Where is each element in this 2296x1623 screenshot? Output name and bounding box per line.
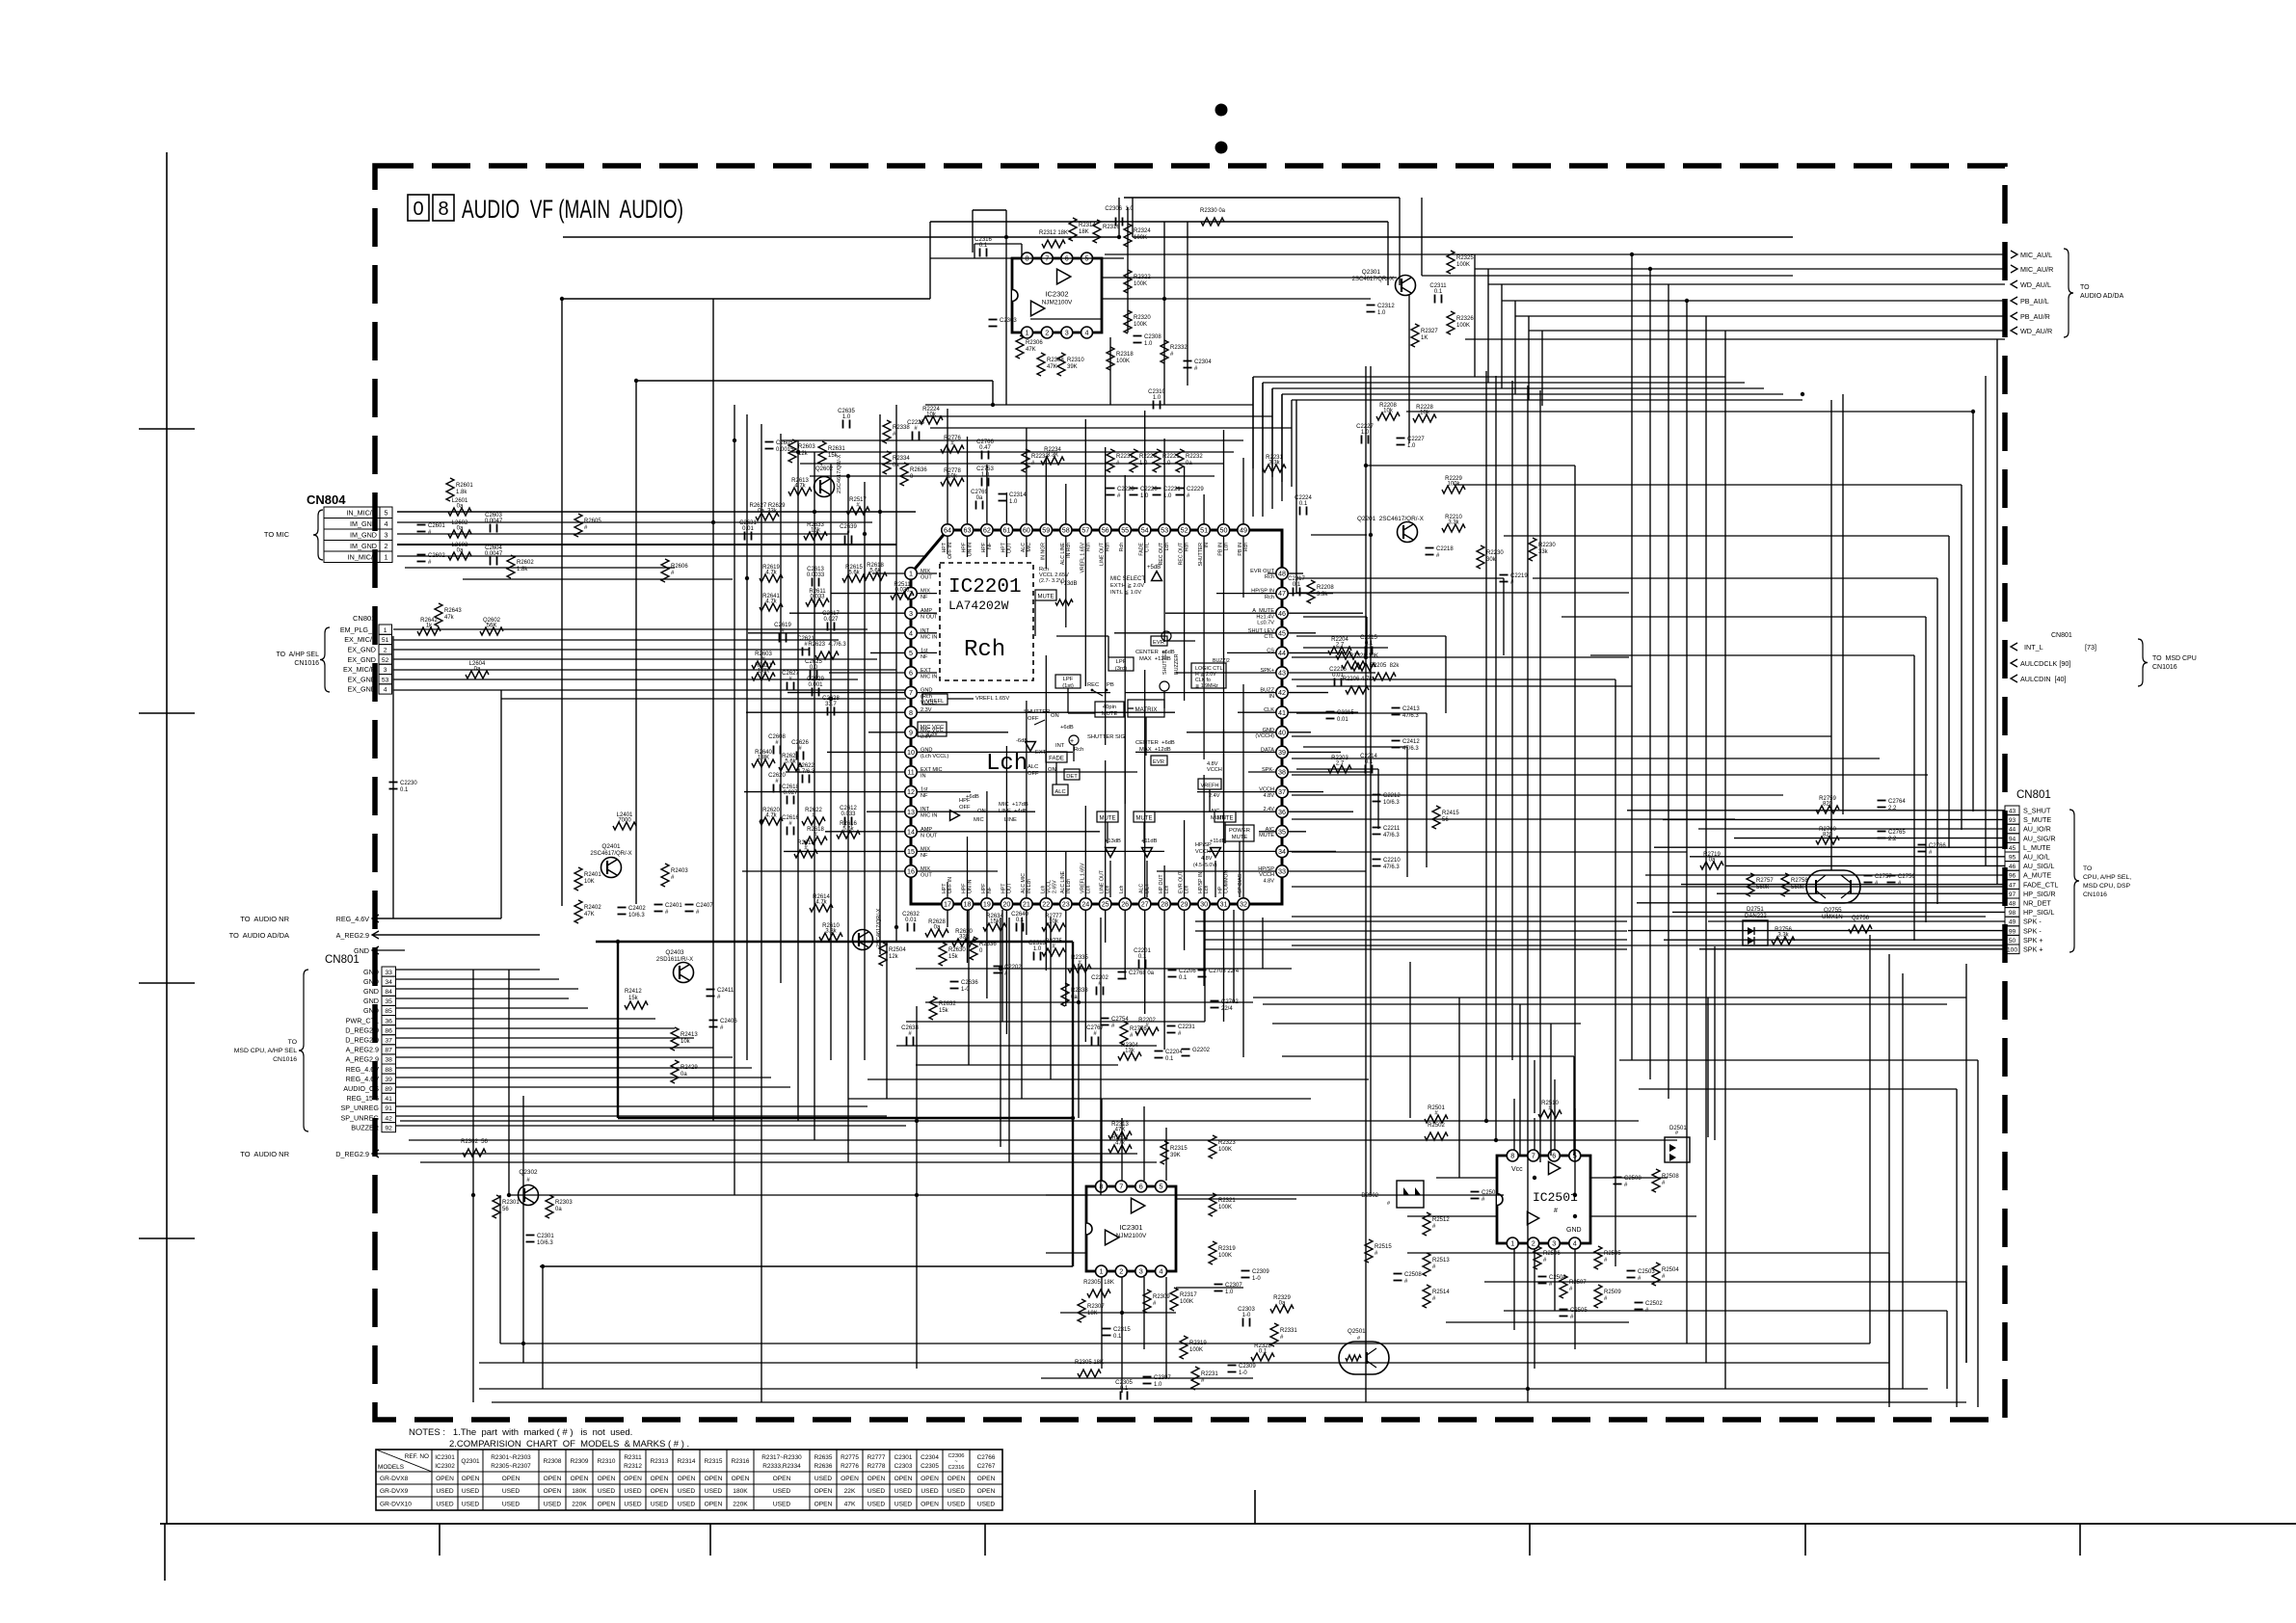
svg-text:OUT: OUT [1006,542,1012,553]
svg-text:ON IN: ON IN [968,879,974,893]
svg-text:4.7k: 4.7k [794,484,806,490]
capacitor C2310 [1148,389,1165,410]
resistor R2323 [1209,1135,1236,1158]
svg-text:+5dB: +5dB [1147,565,1161,571]
wire [1101,1277,1103,1369]
wire [1253,997,1966,998]
schematic dashed border [375,166,2005,1420]
svg-text:Lch: Lch [1119,886,1125,893]
svg-text:4.8V: 4.8V [1201,856,1213,862]
wire [1534,1249,1535,1369]
svg-text:TO: TO [288,1039,297,1046]
wire [1842,394,1844,814]
IC2201 pin 35 [1276,826,1288,838]
resistor R2325 [1447,251,1474,274]
svg-text:Lch: Lch [1164,543,1170,550]
wire [1252,377,1254,517]
svg-text:R2508: R2508 [1662,1174,1679,1180]
junction [745,576,749,580]
junction [1573,1214,1577,1218]
wire [1474,254,1476,377]
wire [1645,874,2005,876]
wire [1176,1287,1243,1289]
svg-text:87: 87 [385,1048,392,1054]
svg-text:MIC VCC: MIC VCC [921,725,944,731]
wire [636,380,993,382]
wire [1102,277,1397,279]
left registration tick 4 [139,1237,195,1239]
svg-text:2: 2 [1532,1239,1535,1248]
svg-text:C2304: C2304 [921,1454,939,1461]
svg-text:63: 63 [964,526,972,535]
svg-text:25: 25 [1102,900,1109,909]
wire [1965,1282,1967,1363]
capacitor C2305 [1115,1380,1133,1400]
wire [1533,577,1937,579]
svg-text:41: 41 [385,1096,392,1103]
wire [501,698,906,700]
wire [1529,330,2005,332]
bottom rule tick down [1804,1524,1806,1556]
wire [1408,295,1410,443]
svg-text:AULCDCLK [90]: AULCDCLK [90] [2020,659,2070,668]
svg-text:49: 49 [2009,919,2016,926]
svg-text:R2775: R2775 [841,1454,859,1461]
wire [1176,1198,1296,1200]
IC2201 LPF 3rd box [1108,657,1134,672]
wire [1698,828,2005,830]
svg-text:50: 50 [1220,526,1228,535]
IC2201 pin 60 [1021,524,1032,536]
svg-text:Vcc: Vcc [1511,1166,1523,1173]
svg-text:100: 100 [2007,947,2017,954]
bottom rule tick down [709,1524,711,1556]
svg-text:C2303: C2303 [1000,318,1017,324]
wire [1292,656,1629,658]
IC2201 pin 24 [1080,898,1091,910]
svg-text:47: 47 [2009,882,2016,889]
wire [968,910,970,1065]
IC2201 pin 3 [905,607,917,619]
resistor R2620 [760,808,783,825]
svg-text:EX_GND: EX_GND [347,655,376,664]
resistor R2634 [983,914,1006,931]
svg-text:1: 1 [1510,1239,1514,1248]
IC2201 pin 46 [1276,607,1288,619]
wire [396,1077,771,1078]
resistor R2429 [671,1060,698,1083]
IC2201 pin 4 [905,627,917,639]
svg-text:USED: USED [894,1501,913,1507]
bottom rule tick down [2079,1524,2081,1556]
svg-text:L≤0.7V: L≤0.7V [1257,621,1274,626]
resistor R2621 [752,663,775,680]
svg-text:39: 39 [1278,748,1286,757]
wire [1501,284,1503,388]
resistor R2508 [1652,1169,1679,1192]
svg-text:Lch: Lch [1204,886,1210,893]
resistor R2320 [1124,310,1151,333]
IC2201 pin 64 [942,524,953,536]
transistor Q2302 [519,1169,539,1206]
svg-text:C2767: C2767 [977,1463,996,1470]
svg-text:R2606: R2606 [671,564,688,570]
svg-text:47K: 47K [844,1501,856,1507]
svg-text:52: 52 [382,657,389,664]
wire [1699,948,2005,950]
svg-text:C2508: C2508 [1404,1272,1422,1278]
svg-text:Rch: Rch [964,637,1005,663]
svg-text:C2502: C2502 [1645,1301,1663,1307]
svg-text:SPK +: SPK + [2023,936,2043,945]
wire [1365,366,1367,1402]
brace to audio AD/DA [2064,249,2123,337]
wire [396,1105,868,1107]
capacitor C2221 [1153,487,1182,499]
junction [711,520,715,524]
wire [974,243,1022,245]
IC2201 pin 63 [961,524,973,536]
svg-text:(4.5- 5.0V): (4.5- 5.0V) [1193,863,1217,868]
svg-text:3: 3 [1065,329,1069,337]
junction [1117,235,1121,239]
capacitor C2632 [902,912,920,932]
IC2201 pin 45 [1276,627,1288,639]
capacitor C2620 [768,773,786,793]
wire [1292,774,1928,776]
wire [540,1265,1073,1267]
wire [734,405,735,1195]
wire [1253,376,1725,378]
wire [1668,284,1669,1099]
svg-text:7: 7 [1532,1152,1535,1160]
svg-text:1.0: 1.0 [1225,1290,1234,1295]
resistor R2619 [760,565,783,582]
svg-text:15k: 15k [948,954,959,960]
svg-text:1K: 1K [1421,335,1428,341]
IC2201 pin 27 [1139,898,1151,910]
svg-text:42: 42 [1278,688,1286,697]
wire [1672,911,2005,913]
wire [1996,339,1998,885]
svg-text:Rch: Rch [1106,543,1111,551]
svg-text:5: 5 [1160,1183,1163,1191]
wire [1888,954,1890,1407]
capacitor C2301 [526,1234,555,1246]
svg-text:R2505: R2505 [1604,1251,1621,1257]
resistor R2204 [1328,637,1351,654]
svg-text:58: 58 [1062,526,1070,535]
wire [879,414,881,954]
bottom rule tick down [984,1524,986,1556]
IC2201 pin 11 [905,766,917,778]
svg-text:100K: 100K [1189,1347,1203,1353]
IC2201 EVR box Rch [1135,636,1175,662]
IC2201 gain amps [1105,838,1226,857]
IC2201 right pin labels [1248,569,1275,884]
wire [397,511,916,513]
svg-text:(2.7- 3.2V): (2.7- 3.2V) [1039,578,1065,584]
svg-text:C2308: C2308 [1144,334,1161,340]
svg-text:37: 37 [385,1038,392,1045]
wire [1195,930,1627,932]
svg-text:44: 44 [1278,649,1286,657]
svg-text:8: 8 [1510,1152,1514,1160]
svg-text:3.3k: 3.3k [1777,933,1789,939]
svg-text:R2230: R2230 [1486,550,1504,556]
svg-text:0.0033: 0.0033 [807,572,825,578]
svg-text:91: 91 [385,1105,392,1112]
wire [1101,1099,1103,1181]
resistor R2413 [671,1027,698,1051]
svg-text:54: 54 [1141,526,1149,535]
IC2201 pin 43 [1276,667,1288,678]
node GND arrow [354,946,405,955]
wire [1519,1004,1521,1156]
svg-text:0.0047: 0.0047 [485,519,503,524]
svg-text:SP_UNREG: SP_UNREG [340,1113,379,1122]
svg-text:R2330 0a: R2330 0a [1200,208,1226,214]
svg-text:MIC_AU/L: MIC_AU/L [2020,251,2052,259]
wire [1205,948,1627,950]
transistor Q2501 digital [1339,1328,1389,1374]
wire [511,1194,1504,1196]
svg-text:1.0: 1.0 [1153,395,1161,401]
capacitor C2505 [1560,1308,1589,1320]
wire [1514,301,1516,394]
wire [1913,655,1915,941]
svg-text:1.8K: 1.8K [758,756,769,761]
svg-text:AUDIO_CS: AUDIO_CS [343,1084,379,1093]
resistor R2324 [1124,224,1151,247]
wire [1714,946,1716,1140]
brace to MSD CPU [2138,639,2197,686]
bottom rule line [160,1523,2296,1525]
wire [1046,1252,1086,1254]
svg-text:34: 34 [385,979,392,986]
resistor R2315 [1161,1141,1188,1164]
wire [1296,768,1378,770]
svg-text:43: 43 [1278,669,1286,678]
svg-text:INT_L: INT_L [2024,643,2043,652]
svg-text:15: 15 [907,847,915,856]
svg-text:R2515: R2515 [1375,1244,1392,1250]
svg-text:1: 1 [1100,1267,1104,1276]
wire [1409,962,1411,1118]
svg-text:3.3k: 3.3k [1268,461,1280,466]
svg-text:4.7/6.3: 4.7/6.3 [797,769,815,775]
svg-text:3: 3 [909,609,913,618]
wire [868,1078,1369,1080]
svg-text:USED: USED [598,1488,616,1495]
wire [393,669,896,671]
wire [1100,918,1102,1195]
wire [1292,916,1986,918]
wire [1717,892,2005,894]
resistor R2230 [1529,538,1556,561]
svg-text:2.4V: 2.4V [1209,793,1220,799]
svg-text:41: 41 [1278,708,1286,717]
svg-text:C2219: C2219 [1510,573,1528,579]
wire [1554,1079,1556,1150]
title sheet number box 8 [433,195,454,221]
capacitor C2619 [774,623,791,643]
svg-text:Rch: Rch [1085,543,1091,551]
wire [562,298,930,300]
svg-text:R2316: R2316 [1103,225,1120,230]
svg-text:OPEN: OPEN [651,1476,669,1482]
resistor R2627 [749,503,786,520]
wire [1060,1312,1176,1314]
svg-text:Q2501: Q2501 [1348,1328,1366,1335]
svg-text:10K: 10K [584,879,595,885]
comparison chart table [376,1450,1002,1510]
wire [1705,316,1707,1363]
IC2201 fade box [1046,747,1083,762]
svg-text:39: 39 [385,1077,392,1083]
junction [894,925,898,929]
junction [541,1264,545,1268]
capacitor C2616 [782,815,799,836]
resistor R2319 [1209,1241,1236,1264]
svg-text:MIC IN: MIC IN [921,813,937,819]
wire [916,1006,918,1369]
svg-text:TO: TO [2080,284,2090,291]
junction [863,532,867,536]
svg-text:35: 35 [385,998,392,1005]
svg-text:0.1: 0.1 [1179,975,1188,981]
wire [396,1037,694,1039]
svg-text:Rch: Rch [1243,543,1249,551]
svg-text:1: 1 [384,627,387,634]
wire [396,1018,655,1020]
connector CN804 [264,492,392,563]
svg-text:OUT: OUT [921,873,932,879]
svg-text:33: 33 [1278,867,1286,876]
wire [1422,275,1793,277]
svg-text:1.0: 1.0 [1163,493,1172,499]
capacitor C2204 [1155,1050,1184,1062]
svg-text:CN801: CN801 [353,614,375,623]
svg-text:47K: 47K [1047,364,1057,370]
svg-text:84: 84 [385,989,392,996]
svg-text:C2212: C2212 [1383,793,1401,799]
resistor R2631 [818,441,845,465]
diode D2502 [1361,1181,1424,1208]
capacitor C2303 [1238,1307,1255,1327]
svg-text:4.7k: 4.7k [765,813,777,819]
capacitor C2202 [1091,975,1108,996]
svg-text:100K: 100K [1456,323,1470,329]
resistor R2633 [804,522,827,540]
wire [1281,394,1283,501]
junction [1364,655,1368,659]
wire [1649,269,1651,1079]
svg-text:Lch: Lch [1224,543,1230,550]
svg-text:MODELS: MODELS [378,1464,404,1471]
IC2201 pin 26 [1119,898,1131,910]
svg-text:38: 38 [385,1057,392,1064]
wire [1664,939,2005,941]
junction [813,510,816,514]
junction [1071,1116,1075,1120]
svg-text:+: + [1070,738,1074,745]
capacitor C2313 [1028,941,1046,961]
svg-text:USED: USED [868,1488,886,1495]
svg-text:R2303: R2303 [555,1200,573,1206]
junction [1484,1119,1488,1123]
wire [886,942,888,1099]
svg-text:A_REG2.9: A_REG2.9 [346,1046,379,1054]
wire [396,1056,733,1058]
wire [1163,222,1165,405]
wire [1072,942,1074,1266]
svg-text:0a: 0a [1279,1301,1286,1307]
wire [1292,818,1735,820]
svg-text:2: 2 [1045,329,1049,337]
capacitor C2407 [685,903,714,916]
svg-text:OPEN: OPEN [705,1476,723,1482]
resistor R2305 [1075,1360,1104,1377]
svg-text:USED: USED [502,1501,521,1507]
svg-text:1.0: 1.0 [1154,1382,1162,1388]
wire [420,1161,1157,1163]
svg-text:1-0: 1-0 [1242,1313,1251,1318]
svg-text:85: 85 [385,1008,392,1015]
svg-text:R2320: R2320 [1134,315,1151,321]
wire [396,1086,790,1088]
svg-text:560k: 560k [1756,885,1770,891]
resistor R2221 [1153,449,1180,472]
capacitor C2612 [840,806,857,826]
svg-text:5: 5 [385,509,388,518]
svg-text:USED: USED [436,1488,454,1495]
svg-text:2: 2 [385,542,388,550]
svg-text:MSD CPU, A/HP SEL: MSD CPU, A/HP SEL [234,1048,297,1054]
resistor R2614 [810,894,833,912]
svg-text:10: 10 [907,748,915,757]
wire [1869,935,1871,1344]
svg-text:0.01: 0.01 [905,918,917,923]
wire [1291,400,1293,487]
resistor R2328 [1349,653,1378,671]
svg-text:10/6.3: 10/6.3 [537,1240,553,1246]
wire [409,1139,1677,1141]
wire [1041,1377,1253,1379]
junction [1120,1311,1124,1315]
resistor R2758 [1781,873,1808,896]
wire [1133,236,1793,238]
resistor R2509 [1594,1285,1621,1308]
svg-text:22K: 22K [844,1488,856,1495]
svg-text:R2506: R2506 [1543,1251,1561,1257]
svg-text:R2309: R2309 [1153,1294,1170,1300]
svg-text:C2316: C2316 [948,1465,964,1471]
junction [1971,410,1975,413]
wire [1296,592,1629,594]
svg-text:R2318: R2318 [1116,352,1134,358]
svg-text:44: 44 [2009,827,2016,834]
svg-text:38: 38 [1278,768,1286,777]
svg-text:1-0: 1-0 [1239,1370,1247,1376]
svg-text:12k: 12k [889,954,899,960]
wire [1262,383,1264,472]
resistor R2231 [1107,449,1134,472]
svg-text:4.7k: 4.7k [765,599,777,605]
IC2201 ALC det [1028,743,1080,795]
IC2201 pin 14 [905,826,917,838]
wire [1282,1055,1574,1057]
